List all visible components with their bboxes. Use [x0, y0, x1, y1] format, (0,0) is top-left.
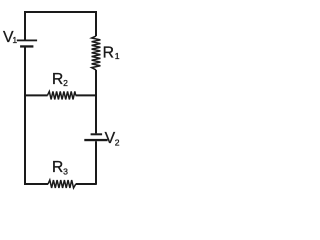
svg-text:R: R [52, 71, 63, 88]
resistor R2 [47, 91, 75, 99]
svg-text:R: R [103, 45, 114, 62]
wire top [25, 12, 96, 40]
wire right mid [95, 70, 97, 133]
wire left [24, 47, 26, 184]
wire middle right lead [76, 94, 97, 96]
resistor R3 [48, 180, 76, 188]
wire bottom right lead [76, 183, 97, 185]
battery V2 [84, 133, 107, 141]
svg-text:3: 3 [63, 166, 68, 176]
wire right bottom [95, 141, 97, 184]
svg-text:1: 1 [12, 35, 17, 45]
svg-text:2: 2 [63, 78, 68, 88]
svg-text:1: 1 [115, 51, 120, 61]
battery V1 [17, 40, 37, 48]
resistor R1 [92, 36, 101, 70]
wire bottom left lead [25, 182, 48, 185]
svg-text:R: R [52, 159, 63, 176]
svg-text:2: 2 [115, 138, 120, 148]
wire middle left lead [24, 94, 47, 96]
